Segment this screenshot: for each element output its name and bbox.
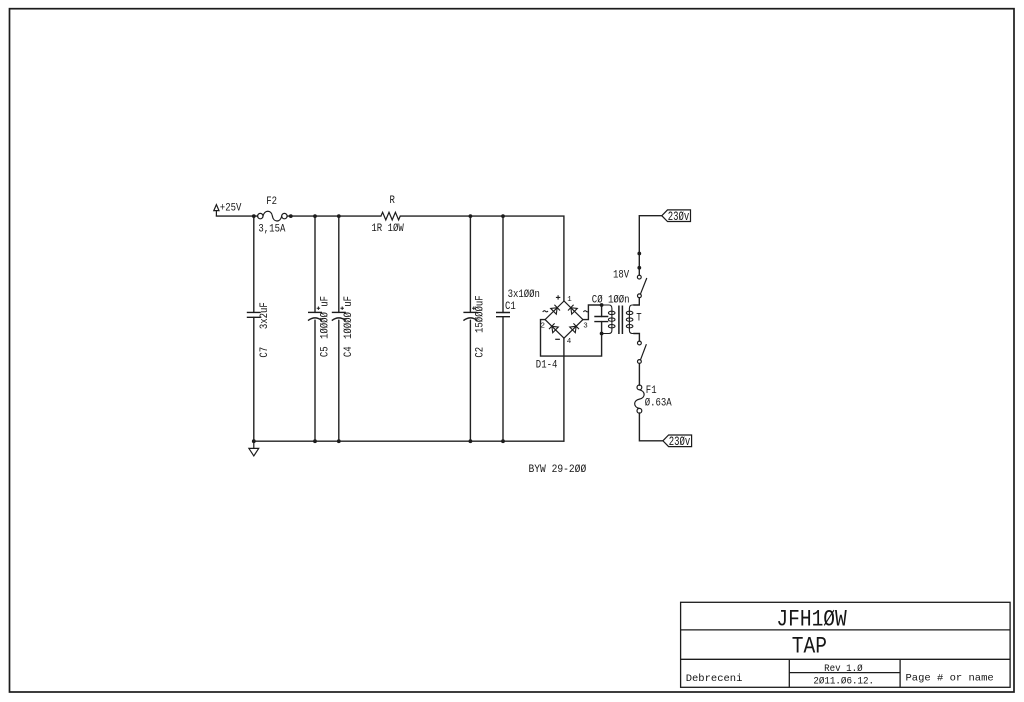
svg-text:1ØØØØ uF: 1ØØØØ uF: [319, 296, 332, 339]
svg-text:C1: C1: [505, 301, 516, 313]
svg-text:R: R: [390, 196, 395, 208]
diode D4 (bottom-right edge): [570, 323, 579, 332]
node 18V tap lower: [637, 266, 641, 270]
node bottom rail at C2: [469, 439, 473, 443]
node bottom rail at C5: [313, 439, 317, 443]
svg-text:2Ø11.Ø6.12.: 2Ø11.Ø6.12.: [813, 675, 874, 686]
svg-text:TAP: TAP: [792, 634, 827, 660]
capacitor C2: [463, 307, 477, 321]
junction dots: [252, 214, 641, 443]
svg-text:18V: 18V: [613, 270, 629, 282]
power flag +25V: [214, 205, 219, 217]
diode D2 (top-right edge): [568, 305, 577, 314]
wire C2 branch: [469, 216, 471, 441]
capacitor C5: [308, 307, 322, 321]
node top rail at C1: [501, 214, 505, 218]
fuse F2: [258, 211, 288, 221]
svg-text:Page # or name: Page # or name: [906, 673, 994, 685]
node top rail at C5: [313, 214, 317, 218]
svg-text:F2: F2: [266, 196, 277, 208]
node after fuse F2: [289, 214, 293, 218]
bridge rectifier D1-4: [545, 301, 583, 338]
label ~ (bridge pin2): [543, 311, 548, 312]
svg-text:BYW 29-2ØØ: BYW 29-2ØØ: [529, 463, 587, 476]
node bottom rail at C1: [501, 439, 505, 443]
svg-text:23Øv: 23Øv: [668, 211, 690, 225]
svg-text:Debreceni: Debreceni: [686, 673, 743, 685]
node 18V tap upper: [637, 252, 641, 256]
svg-text:C5: C5: [320, 346, 332, 357]
wire C0 top stub: [601, 305, 603, 317]
fuse F1: [635, 385, 644, 413]
capacitor C1: [496, 313, 510, 317]
wire bridge bottom to rail: [563, 338, 565, 441]
node C0 bottom: [600, 332, 604, 336]
wire C4 branch: [338, 216, 340, 441]
label + (bridge pin1): [556, 295, 560, 299]
wire C1 branch: [502, 216, 504, 441]
node bottom rail at C4: [337, 439, 341, 443]
svg-text:JFH1ØW: JFH1ØW: [776, 607, 847, 633]
node C0 top: [600, 303, 604, 307]
transformer core: [619, 306, 623, 335]
wire fuse F1 to 230v bottom: [639, 413, 663, 441]
connector 230v top: [662, 210, 691, 222]
wire top rail left (input to fuse): [216, 215, 257, 217]
svg-text:C4: C4: [344, 346, 356, 357]
svg-text:1R 1ØW: 1R 1ØW: [371, 222, 404, 235]
svg-text:3x2uF: 3x2uF: [259, 302, 271, 329]
wire bottom rail: [254, 440, 564, 442]
svg-text:D1-4: D1-4: [536, 360, 558, 372]
wire transformer to switch2: [634, 334, 640, 342]
switch SW1 (18V tap): [637, 275, 646, 297]
wire bridge pin3 to C0 top node: [583, 305, 602, 320]
svg-text:3x1ØØn: 3x1ØØn: [508, 288, 540, 301]
svg-text:T: T: [636, 313, 641, 325]
wire top rail fuse to resistor: [287, 215, 381, 217]
wire C0 bottom stub: [601, 322, 603, 334]
diode D1 (top-left edge): [551, 305, 560, 314]
wire C5 branch: [314, 216, 316, 441]
svg-text:Ø.63A: Ø.63A: [645, 397, 673, 410]
svg-text:F1: F1: [646, 385, 657, 397]
svg-text:C2: C2: [475, 347, 487, 358]
svg-text:3: 3: [583, 323, 588, 331]
node bottom rail at ground: [252, 439, 256, 443]
svg-text:4: 4: [567, 338, 572, 346]
wire switch2 to fuse F1: [638, 363, 640, 385]
label ~ (bridge pin3): [583, 311, 588, 312]
node top rail at C2: [469, 214, 473, 218]
transformer T primary winding: [602, 305, 615, 334]
svg-text:1: 1: [567, 296, 572, 304]
svg-text:2: 2: [541, 323, 546, 331]
label - (bridge pin4): [555, 338, 560, 340]
ground: [249, 441, 259, 456]
transformer T secondary winding: [626, 305, 639, 334]
wire 230v top to switch: [639, 216, 662, 276]
wire top rail resistor to bridge drop: [400, 216, 564, 301]
svg-text:15ØØØuF: 15ØØØuF: [474, 295, 487, 333]
svg-text:1ØØØØ uF: 1ØØØØ uF: [342, 296, 355, 339]
svg-text:23Øv: 23Øv: [669, 436, 691, 450]
wire switch1 to transformer: [634, 298, 640, 305]
capacitor C0: [594, 317, 608, 322]
switch SW2: [638, 341, 647, 363]
capacitor C7: [247, 312, 261, 317]
wire C7 branch: [253, 216, 255, 441]
svg-text:Rev 1.Ø: Rev 1.Ø: [824, 663, 863, 674]
svg-text:C7: C7: [259, 347, 271, 358]
resistor R: [381, 212, 400, 220]
capacitor C4: [332, 307, 346, 321]
diode D3 (bottom-left edge): [549, 323, 558, 332]
node top rail at C4: [337, 214, 341, 218]
wire bridge pin2 to C0 bottom node: [541, 320, 602, 357]
node top rail at C7: [252, 214, 256, 218]
connector 230v bottom: [663, 435, 692, 447]
svg-text:3,15A: 3,15A: [258, 224, 286, 236]
title block: [681, 602, 1011, 687]
svg-text:+25V: +25V: [220, 203, 242, 215]
